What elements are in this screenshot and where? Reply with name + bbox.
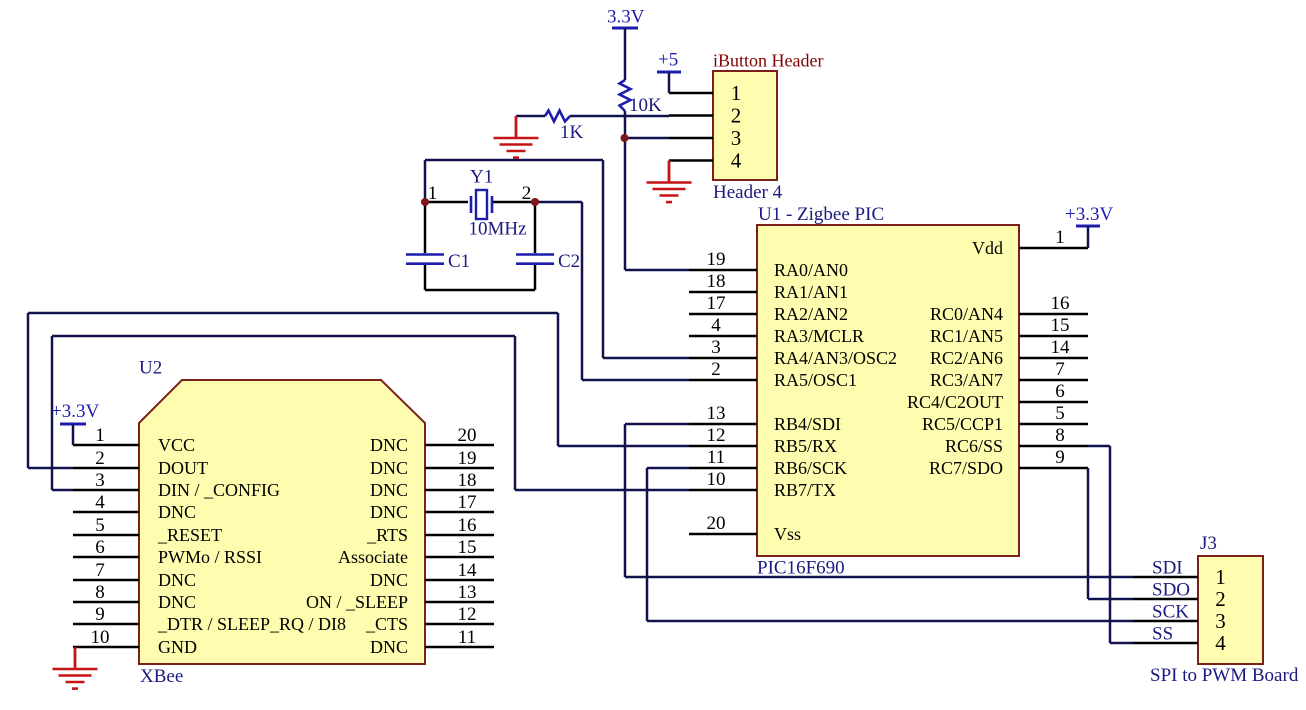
svg-text:9: 9 — [95, 604, 105, 625]
svg-text:18: 18 — [707, 271, 726, 292]
svg-text:RA5/OSC1: RA5/OSC1 — [774, 370, 857, 390]
svg-text:20: 20 — [707, 513, 726, 534]
svg-text:_RESET: _RESET — [157, 525, 222, 545]
svg-text:11: 11 — [707, 447, 725, 468]
svg-text:RC2/AN6: RC2/AN6 — [930, 348, 1003, 368]
svg-text:DNC: DNC — [370, 637, 408, 657]
svg-text:10MHz: 10MHz — [469, 219, 527, 240]
svg-text:1: 1 — [1215, 565, 1226, 589]
svg-text:RC6/SS: RC6/SS — [945, 436, 1003, 456]
svg-text:DIN / _CONFIG: DIN / _CONFIG — [158, 480, 280, 500]
svg-text:1K: 1K — [560, 122, 584, 143]
svg-text:PIC16F690: PIC16F690 — [757, 558, 845, 579]
svg-text:Y1: Y1 — [470, 167, 493, 188]
svg-text:15: 15 — [1051, 315, 1070, 336]
svg-text:4: 4 — [711, 315, 721, 336]
svg-text:SPI to PWM Board: SPI to PWM Board — [1150, 665, 1299, 686]
svg-text:8: 8 — [1055, 425, 1065, 446]
svg-text:SCK: SCK — [1152, 602, 1189, 623]
svg-text:_DTR / SLEEP_RQ / DI8: _DTR / SLEEP_RQ / DI8 — [157, 614, 346, 634]
svg-text:J3: J3 — [1200, 533, 1217, 554]
svg-text:RB6/SCK: RB6/SCK — [774, 458, 847, 478]
svg-text:18: 18 — [458, 470, 477, 491]
svg-text:RC7/SDO: RC7/SDO — [929, 458, 1003, 478]
svg-text:U1 - Zigbee PIC: U1 - Zigbee PIC — [758, 204, 884, 225]
svg-text:ON / _SLEEP: ON / _SLEEP — [306, 592, 408, 612]
svg-text:9: 9 — [1055, 447, 1065, 468]
svg-text:Vss: Vss — [774, 524, 801, 544]
svg-text:RA3/MCLR: RA3/MCLR — [774, 326, 864, 346]
svg-text:1: 1 — [95, 425, 105, 446]
svg-text:20: 20 — [458, 425, 477, 446]
svg-text:7: 7 — [95, 560, 105, 581]
svg-text:DNC: DNC — [158, 570, 196, 590]
svg-text:GND: GND — [158, 637, 197, 657]
svg-text:4: 4 — [1215, 631, 1226, 655]
svg-text:3: 3 — [711, 337, 721, 358]
svg-text:+3.3V: +3.3V — [1065, 204, 1113, 225]
svg-text:2: 2 — [731, 104, 742, 128]
svg-text:DNC: DNC — [158, 502, 196, 522]
svg-text:7: 7 — [1055, 359, 1065, 380]
svg-text:Vdd: Vdd — [972, 238, 1003, 258]
svg-text:12: 12 — [458, 604, 477, 625]
svg-text:iButton Header: iButton Header — [713, 51, 823, 71]
svg-text:17: 17 — [707, 293, 726, 314]
svg-text:16: 16 — [1051, 293, 1070, 314]
svg-text:RC0/AN4: RC0/AN4 — [930, 304, 1003, 324]
svg-text:_RTS: _RTS — [366, 525, 408, 545]
svg-text:3.3V: 3.3V — [607, 7, 645, 28]
svg-text:DOUT: DOUT — [158, 458, 208, 478]
svg-text:10K: 10K — [629, 95, 662, 116]
svg-text:DNC: DNC — [370, 570, 408, 590]
svg-text:RA0/AN0: RA0/AN0 — [774, 260, 848, 280]
svg-text:2: 2 — [711, 359, 721, 380]
svg-text:2: 2 — [95, 448, 105, 469]
svg-text:RC1/AN5: RC1/AN5 — [930, 326, 1003, 346]
svg-text:RA2/AN2: RA2/AN2 — [774, 304, 848, 324]
svg-text:5: 5 — [1055, 403, 1065, 424]
svg-text:SDI: SDI — [1152, 558, 1183, 579]
svg-text:11: 11 — [458, 627, 476, 648]
svg-text:RB7/TX: RB7/TX — [774, 480, 836, 500]
svg-text:10: 10 — [91, 627, 110, 648]
svg-text:+5: +5 — [658, 50, 678, 71]
svg-text:13: 13 — [707, 403, 726, 424]
svg-text:6: 6 — [95, 537, 105, 558]
svg-text:4: 4 — [95, 492, 105, 513]
svg-text:RB5/RX: RB5/RX — [774, 436, 837, 456]
svg-text:15: 15 — [458, 537, 477, 558]
svg-text:+3.3V: +3.3V — [51, 401, 99, 422]
svg-text:RB4/SDI: RB4/SDI — [774, 414, 841, 434]
svg-text:4: 4 — [731, 149, 742, 173]
svg-text:8: 8 — [95, 582, 105, 603]
svg-text:DNC: DNC — [370, 435, 408, 455]
svg-text:2: 2 — [1215, 587, 1226, 611]
svg-text:XBee: XBee — [140, 666, 183, 687]
svg-text:SS: SS — [1152, 624, 1173, 645]
svg-text:5: 5 — [95, 515, 105, 536]
svg-text:RA1/AN1: RA1/AN1 — [774, 282, 848, 302]
svg-text:14: 14 — [458, 560, 478, 581]
svg-text:17: 17 — [458, 492, 477, 513]
svg-text:19: 19 — [707, 249, 726, 270]
svg-text:DNC: DNC — [370, 480, 408, 500]
svg-text:DNC: DNC — [370, 502, 408, 522]
svg-text:RC3/AN7: RC3/AN7 — [930, 370, 1003, 390]
svg-text:14: 14 — [1051, 337, 1071, 358]
svg-text:19: 19 — [458, 448, 477, 469]
svg-text:C1: C1 — [448, 251, 470, 272]
svg-text:3: 3 — [95, 470, 105, 491]
svg-text:1: 1 — [731, 81, 742, 105]
svg-text:Header 4: Header 4 — [713, 182, 783, 203]
svg-text:3: 3 — [1215, 609, 1226, 633]
svg-text:PWMo / RSSI: PWMo / RSSI — [158, 547, 262, 567]
svg-text:DNC: DNC — [158, 592, 196, 612]
svg-text:2: 2 — [522, 183, 532, 204]
svg-text:VCC: VCC — [158, 435, 195, 455]
svg-text:16: 16 — [458, 515, 477, 536]
svg-text:1: 1 — [428, 183, 438, 204]
svg-text:_CTS: _CTS — [365, 614, 408, 634]
svg-text:3: 3 — [731, 126, 742, 150]
svg-text:SDO: SDO — [1152, 580, 1190, 601]
svg-text:10: 10 — [707, 469, 726, 490]
svg-text:6: 6 — [1055, 381, 1065, 402]
svg-text:Associate: Associate — [338, 547, 408, 567]
svg-text:RC4/C2OUT: RC4/C2OUT — [907, 392, 1003, 412]
svg-text:C2: C2 — [558, 251, 580, 272]
svg-text:DNC: DNC — [370, 458, 408, 478]
svg-text:13: 13 — [458, 582, 477, 603]
svg-text:12: 12 — [707, 425, 726, 446]
svg-text:RC5/CCP1: RC5/CCP1 — [922, 414, 1003, 434]
svg-text:1: 1 — [1055, 227, 1065, 248]
svg-text:U2: U2 — [139, 358, 162, 379]
svg-text:RA4/AN3/OSC2: RA4/AN3/OSC2 — [774, 348, 897, 368]
